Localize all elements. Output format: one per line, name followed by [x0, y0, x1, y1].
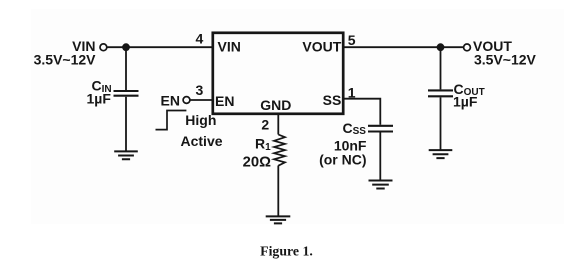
svg-text:EN: EN	[161, 92, 180, 108]
svg-text:5: 5	[348, 32, 356, 48]
svg-text:1µF: 1µF	[87, 91, 112, 107]
svg-text:EN: EN	[215, 93, 234, 109]
svg-text:Active: Active	[181, 133, 223, 149]
svg-text:4: 4	[196, 31, 204, 47]
svg-text:1µF: 1µF	[453, 93, 478, 109]
svg-text:VIN: VIN	[218, 38, 241, 54]
svg-text:(or NC): (or NC)	[319, 151, 366, 167]
svg-text:High: High	[185, 112, 216, 128]
svg-text:GND: GND	[260, 97, 291, 113]
svg-text:1: 1	[348, 85, 356, 101]
svg-text:SS: SS	[323, 92, 342, 108]
svg-text:VOUT: VOUT	[302, 38, 341, 54]
svg-text:3.5V~12V: 3.5V~12V	[34, 51, 97, 67]
svg-text:3: 3	[196, 82, 204, 98]
svg-text:20Ω: 20Ω	[243, 155, 271, 171]
svg-text:3.5V~12V: 3.5V~12V	[474, 51, 537, 67]
svg-text:Figure 1.: Figure 1.	[260, 244, 313, 259]
svg-text:2: 2	[261, 116, 269, 132]
